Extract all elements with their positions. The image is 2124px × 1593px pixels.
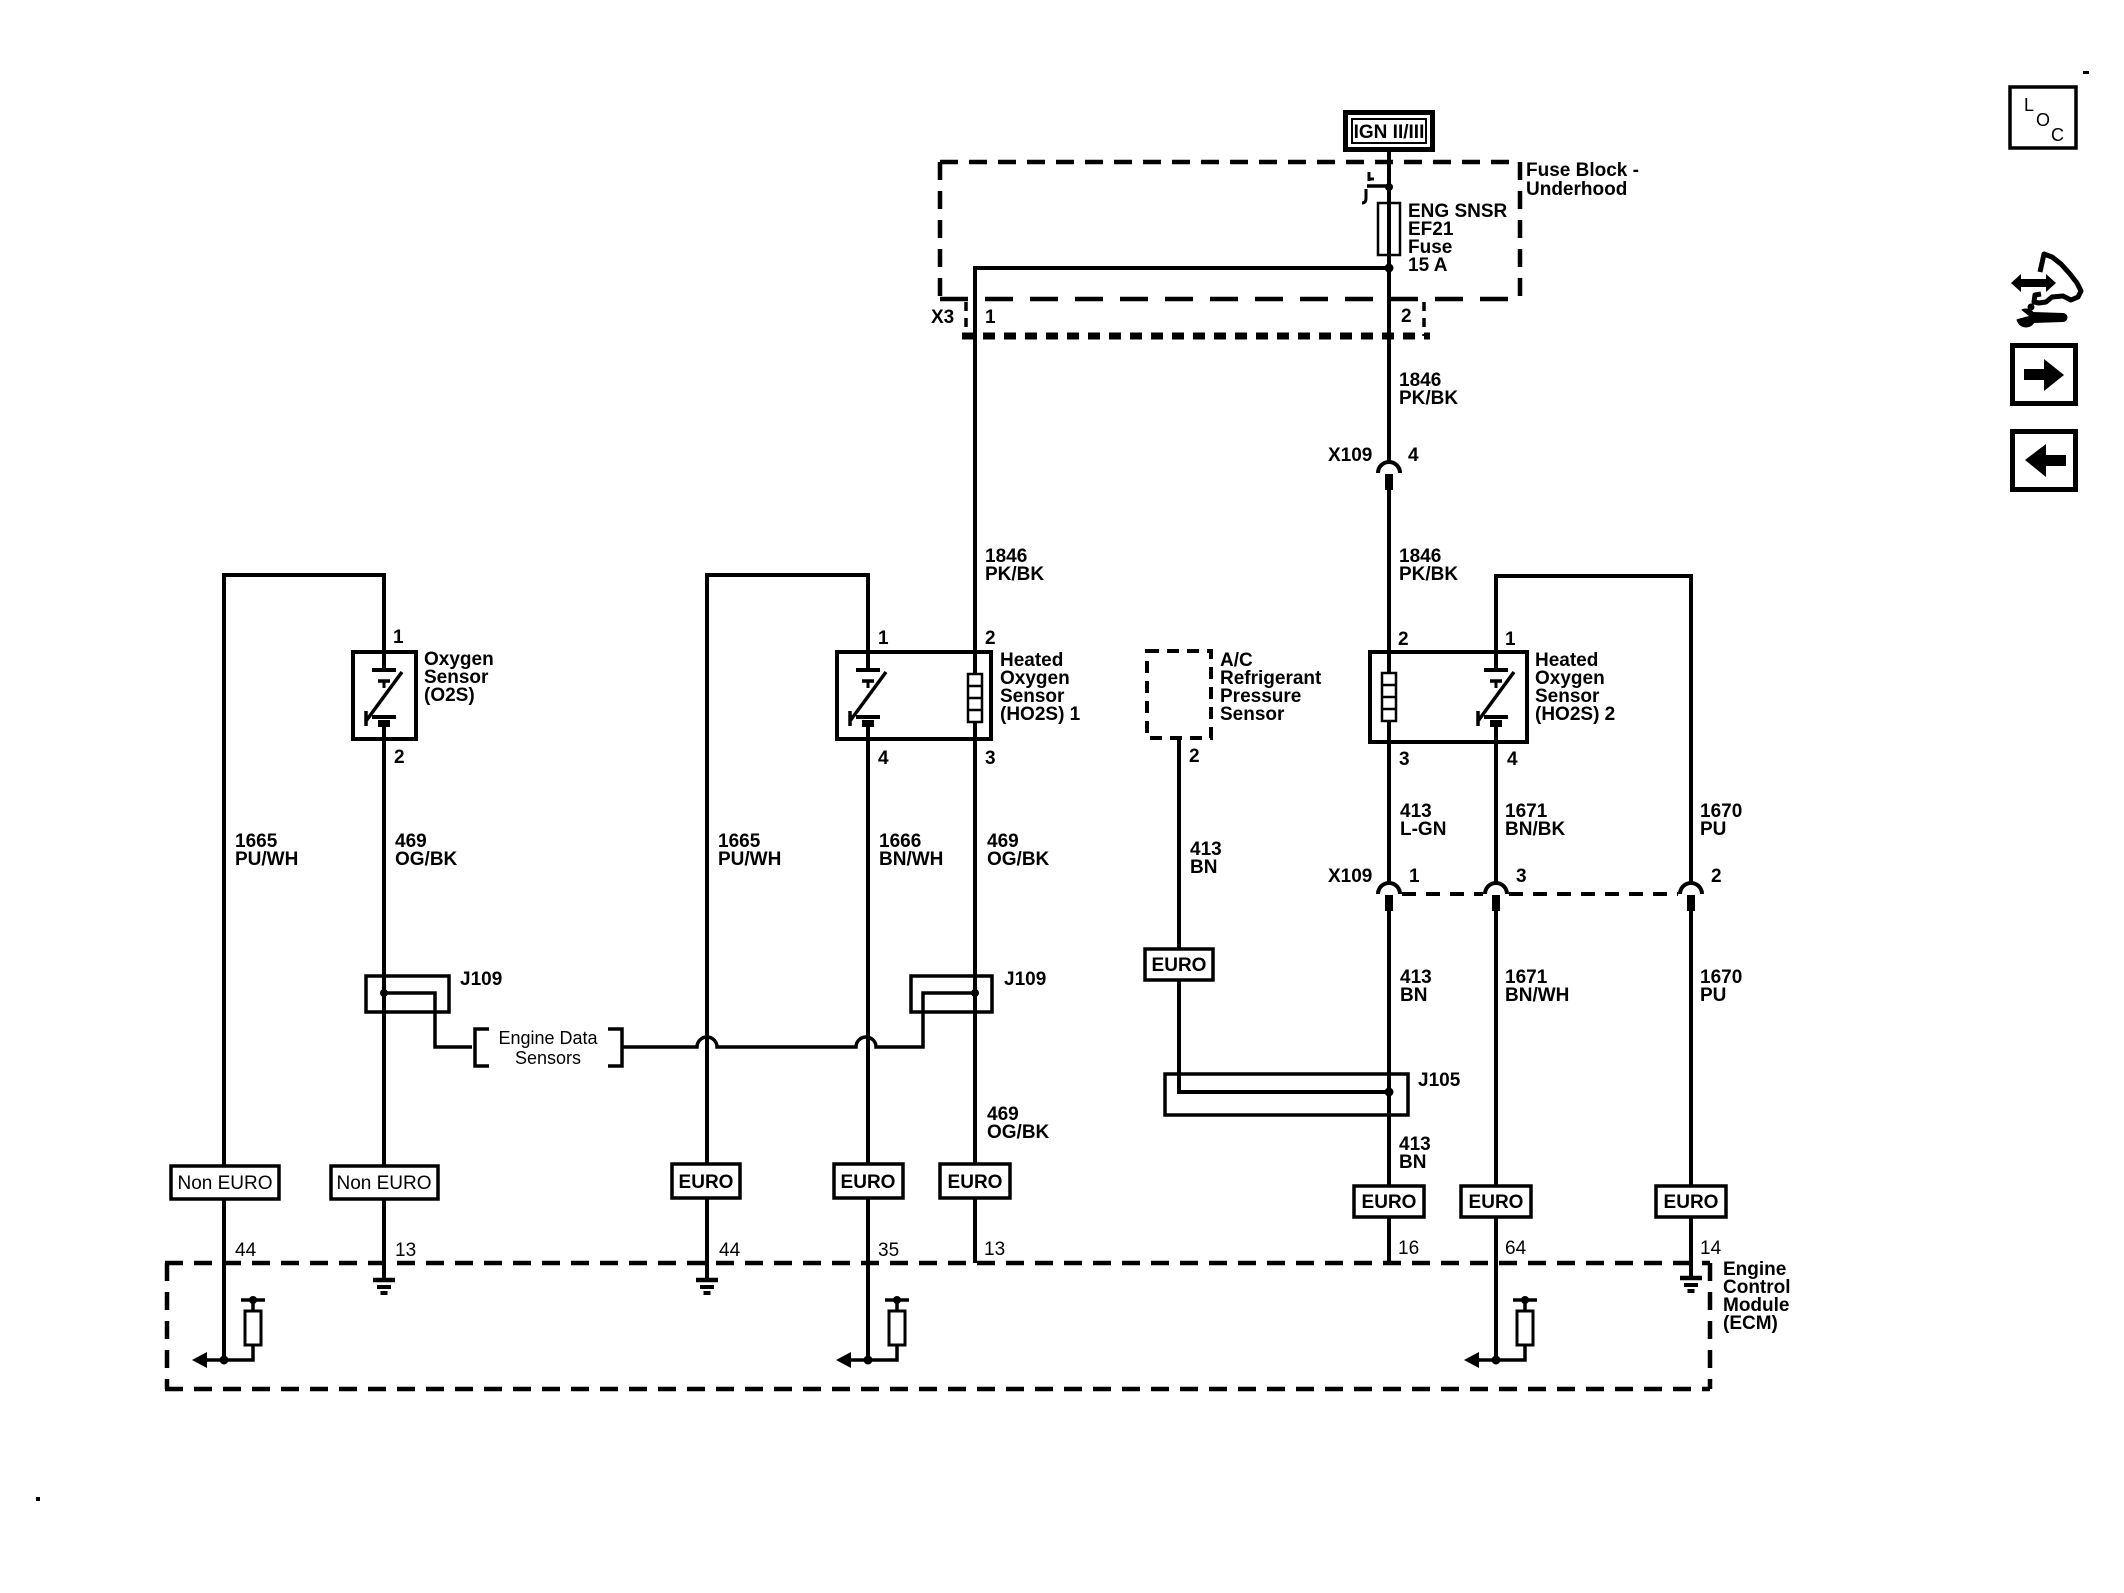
svg-text:1: 1 [393,627,404,648]
svg-text:EURO: EURO [1469,1192,1524,1213]
ECM pin 16 label [1398,1238,1419,1259]
A/C sensor pin 2 label [1189,746,1200,767]
svg-text:44: 44 [235,1240,257,1261]
label 413 BN lower [1399,1134,1431,1173]
ECM pin 44 label [235,1240,257,1261]
ECM internal circuit pin 44 [192,1296,265,1368]
HO2S1 pin 2 label [985,628,996,649]
svg-text:PU: PU [1700,819,1726,840]
svg-text:J109: J109 [460,969,502,990]
heated oxygen sensor HO2S2 box [1370,652,1527,742]
back arrow box [2013,432,2076,490]
connector X109 row dashed link 2 [1509,892,1678,896]
svg-text:1: 1 [1409,866,1420,887]
wire 1846 to HO2S2 [1387,490,1391,652]
svg-text:X3: X3 [931,307,954,328]
svg-text:EURO: EURO [1362,1192,1417,1213]
wire 1671 BN/WH to ECM pin 64 [1494,911,1498,1186]
connector X109 pin 3 [1485,883,1507,911]
svg-text:1: 1 [1505,629,1516,650]
svg-text:PK/BK: PK/BK [1399,564,1458,585]
svg-text:BN: BN [1400,985,1427,1006]
bus tap symbol [1362,172,1393,203]
HO2S2 heater element symbol [1382,652,1396,742]
label 1666 BN/WH [879,831,943,870]
oxygen sensor O2S box [353,652,416,739]
svg-text:13: 13 [984,1239,1005,1260]
svg-text:13: 13 [395,1240,416,1261]
svg-text:O: O [2036,110,2050,130]
svg-text:J105: J105 [1418,1070,1461,1091]
wire HO2S1 supply loop 1665 [707,575,868,1164]
label Heated Oxygen Sensor (HO2S) 2 [1535,650,1615,725]
EURO tag 469 [940,1164,1010,1198]
label 1670 PU upper [1700,801,1742,840]
wire 469 from O2S pin 2 [382,739,386,1166]
connector X3 left edge [964,302,968,336]
O2S sensor element symbol [366,652,402,739]
EURO tag 413 [1354,1186,1424,1217]
label J109 right [1004,969,1046,990]
svg-text:PK/BK: PK/BK [1399,388,1458,409]
svg-text:(O2S): (O2S) [424,685,475,706]
svg-text:(HO2S) 2: (HO2S) 2 [1535,704,1615,725]
svg-text:PU: PU [1700,985,1726,1006]
HO2S2 pin 4 label [1507,749,1518,770]
ECM internal circuit pin 35 [836,1296,909,1368]
wire O2S supply loop [224,575,384,1166]
HO2S2 pin 2 label [1398,629,1409,650]
EURO tag 1671 [1461,1186,1531,1217]
svg-text:BN: BN [1399,1152,1426,1173]
LOC reference box [2010,87,2076,148]
svg-text:X109: X109 [1328,445,1372,466]
label Engine Control Module (ECM) [1723,1259,1791,1334]
svg-text:15 A: 15 A [1408,255,1448,276]
label Heated Oxygen Sensor (HO2S) 1 [1000,650,1081,725]
svg-text:2: 2 [394,747,405,768]
splice J105 [1165,1074,1408,1115]
wire to ECM pin 16 end [1387,1217,1391,1263]
label X109 row [1328,866,1372,887]
svg-text:16: 16 [1398,1238,1419,1259]
fuse block underhood dashed box [940,162,1520,299]
HO2S1 heater element symbol [968,652,982,739]
svg-text:L-GN: L-GN [1400,819,1446,840]
svg-text:64: 64 [1505,1238,1527,1259]
label J105 [1418,1070,1461,1091]
wire 413 BN from A/C sensor [1177,738,1181,949]
wire 1670 loop HO2S2 pin 1 [1496,576,1691,883]
svg-text:3: 3 [1516,866,1527,887]
splice J109 left [366,976,472,1047]
label 469 OG/BK left [395,831,458,870]
label 1665 PU/WH middle [718,831,781,870]
HO2S1 pin 4 label [878,748,889,769]
wire IGN to fuse block [1387,152,1391,268]
wire 469 from HO2S1 pin 3 [973,739,977,1164]
svg-text:4: 4 [878,748,889,769]
svg-text:BN: BN [1190,857,1217,878]
label 1671 BN/BK [1505,801,1565,840]
wire to ECM pin 35 [866,1198,870,1360]
X109 pin 1 label [1409,866,1420,887]
svg-text:OG/BK: OG/BK [987,1122,1050,1143]
svg-text:PU/WH: PU/WH [718,849,781,870]
label 1846 PK/BK upper [1399,370,1458,409]
EURO tag 1666 [834,1164,903,1198]
HO2S2 sensor element symbol [1478,652,1514,742]
O2S pin 2 label [394,747,405,768]
svg-text:4: 4 [1408,445,1419,466]
svg-text:BN/WH: BN/WH [1505,985,1569,1006]
wire to ECM pin 44 mid [705,1198,709,1278]
svg-text:(HO2S) 1: (HO2S) 1 [1000,704,1081,725]
HO2S2 pin 3 label [1399,749,1410,770]
wire 1670 PU to ECM pin 14 [1689,911,1693,1186]
label 413 BN a/c [1190,839,1222,878]
Non EURO tag 2 [331,1166,438,1199]
svg-text:1: 1 [985,307,996,328]
ground pin 44 mid [696,1263,718,1293]
svg-text:2: 2 [1189,746,1200,767]
forward arrow box [2013,346,2076,404]
ECM pin 35 label [878,1240,899,1261]
svg-text:2: 2 [985,628,996,649]
label 1671 BN/WH [1505,967,1569,1006]
IGN II/III power feed box [1346,113,1433,150]
wire a/c to J105 [1179,980,1389,1092]
label 1670 PU lower [1700,967,1742,1006]
svg-text:L: L [2024,95,2034,115]
connector X109 pin 2 [1680,883,1702,911]
vehicle/wrench icon [2010,254,2081,328]
X109 pin 4 label [1408,445,1419,466]
ECM pin 13 label [395,1240,416,1261]
svg-text:OG/BK: OG/BK [395,849,458,870]
HO2S2 pin 1 label [1505,629,1516,650]
wire 413 L-GN from HO2S2 pin 3 [1387,742,1391,883]
X109 pin 3 label [1516,866,1527,887]
svg-text:35: 35 [878,1240,899,1261]
wire to ECM pin 44 left [222,1199,226,1360]
svg-text:EURO: EURO [1664,1192,1719,1213]
ECM pin 14 label [1700,1238,1722,1259]
svg-text:PU/WH: PU/WH [235,849,298,870]
ECM pin 13 label mid [984,1239,1005,1260]
tiny mark top right [2083,71,2089,74]
label Oxygen Sensor (O2S) [424,649,494,706]
svg-text:(ECM): (ECM) [1723,1313,1778,1334]
svg-text:EURO: EURO [948,1172,1003,1193]
wire to ECM pin 14 end [1689,1217,1693,1276]
svg-text:3: 3 [1399,749,1410,770]
wire to ECM pin 64 end [1494,1217,1498,1360]
connector X109 pin 4 [1378,462,1400,490]
ground pin 13 [373,1263,395,1293]
svg-text:EURO: EURO [1152,955,1207,976]
wire to ECM pin 13 left [382,1199,386,1278]
X3 pin 2 label [1401,306,1412,327]
svg-text:2: 2 [1711,866,1722,887]
EURO tag 1665 [672,1164,740,1198]
svg-text:2: 2 [1398,629,1409,650]
wire 1666 from HO2S1 pin 4 [866,739,870,1164]
svg-text:PK/BK: PK/BK [985,564,1044,585]
HO2S1 pin 3 label [985,748,996,769]
wire to ECM pin 13 mid [973,1198,977,1263]
connector X109 row dashed link 1 [1402,892,1483,896]
label X109 top [1328,445,1372,466]
label 413 BN right [1400,967,1432,1006]
splice J109 right [911,976,992,1012]
svg-text:Underhood: Underhood [1526,179,1627,200]
ground pin 14 [1680,1263,1702,1291]
label 1846 PK/BK left branch [985,546,1044,585]
svg-text:Fuse Block -: Fuse Block - [1526,160,1639,181]
X109 pin 2 label [1711,866,1722,887]
fuse ENG SNSR EF21 [1378,203,1400,255]
ECM pin 64 label [1505,1238,1527,1259]
label J109 left [460,969,502,990]
wire 1671 BN/BK from HO2S2 pin 4 [1494,742,1498,883]
wire fuse output to X3 pin 1 [975,268,1389,652]
svg-text:IGN II/III: IGN II/III [1354,122,1425,143]
heated oxygen sensor HO2S1 box [837,652,991,739]
engine data sensors reference brackets [475,1028,622,1068]
label 1846 PK/BK right lower [1399,546,1458,585]
label fuse ENG SNSR EF21 Fuse 15 A [1408,201,1508,276]
EURO tag a/c branch [1145,949,1213,980]
Non EURO tag 1 [171,1166,279,1199]
svg-text:Non EURO: Non EURO [336,1173,431,1194]
svg-text:1: 1 [878,628,889,649]
svg-text:Non EURO: Non EURO [177,1173,272,1194]
svg-text:2: 2 [1401,306,1412,327]
label Fuse Block - Underhood [1526,160,1639,200]
EURO tag 1670 [1656,1186,1726,1217]
wire engine data bus with hops [622,993,975,1047]
label A/C Refrigerant Pressure Sensor [1220,650,1322,725]
svg-text:EURO: EURO [841,1172,896,1193]
svg-text:BN/BK: BN/BK [1505,819,1565,840]
O2S pin 1 label [393,627,404,648]
label 413 L-GN [1400,801,1446,840]
label 469 OG/BK middle [987,831,1050,870]
engine control module dashed box [165,1263,1710,1389]
svg-text:44: 44 [719,1240,741,1261]
svg-text:14: 14 [1700,1238,1722,1259]
svg-text:C: C [2051,125,2064,145]
junction dot fuse output [1385,264,1394,273]
ECM pin 44 label mid [719,1240,741,1261]
svg-text:Sensors: Sensors [515,1048,581,1068]
connector X3 bottom edge [962,333,1430,340]
X3 pin 1 label [985,307,996,328]
connector X109 pin 1 [1378,883,1400,911]
svg-text:EURO: EURO [679,1172,734,1193]
wire 1846 from X3 pin 2 [1387,268,1391,462]
label 469 OG/BK lower [987,1104,1050,1143]
ECM internal circuit pin 64 [1464,1296,1537,1368]
svg-text:Sensor: Sensor [1220,704,1285,725]
svg-text:OG/BK: OG/BK [987,849,1050,870]
connector X3 right edge [1422,302,1426,336]
HO2S1 sensor element symbol [850,652,886,739]
tiny mark bottom left [36,1497,40,1501]
wire 413 BN to ECM pin 16 [1387,911,1391,1186]
svg-text:Engine Data: Engine Data [498,1028,598,1048]
HO2S1 pin 1 label [878,628,889,649]
svg-text:4: 4 [1507,749,1518,770]
svg-text:J109: J109 [1004,969,1046,990]
svg-text:3: 3 [985,748,996,769]
label 1665 PU/WH far left [235,831,298,870]
label X3 [931,307,954,328]
svg-text:X109: X109 [1328,866,1372,887]
A/C refrigerant pressure sensor dashed box [1147,651,1211,738]
svg-text:BN/WH: BN/WH [879,849,943,870]
